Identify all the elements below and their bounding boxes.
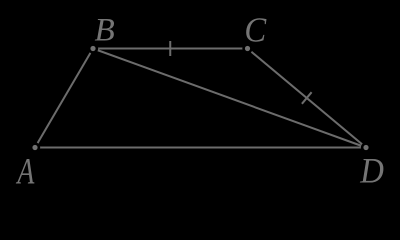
gap ring B	[88, 43, 98, 53]
wire AD	[35, 147, 366, 149]
svg-text:C: C	[244, 12, 266, 50]
gap ring D	[361, 142, 371, 152]
gap ring C	[242, 43, 252, 53]
node B	[90, 46, 95, 51]
svg-text:A: A	[16, 152, 35, 190]
svg-text:B: B	[95, 11, 115, 48]
svg-text:D: D	[359, 151, 384, 190]
node D	[363, 145, 368, 150]
wire AB	[35, 49, 93, 148]
tick mark on CD	[302, 92, 312, 104]
node A	[32, 145, 37, 150]
node C	[245, 46, 250, 51]
wire BC	[93, 48, 248, 50]
wire BD (diagonal)	[93, 49, 366, 148]
wire CD	[248, 49, 367, 148]
tick mark on BC	[169, 41, 171, 56]
gap ring A	[30, 142, 40, 152]
